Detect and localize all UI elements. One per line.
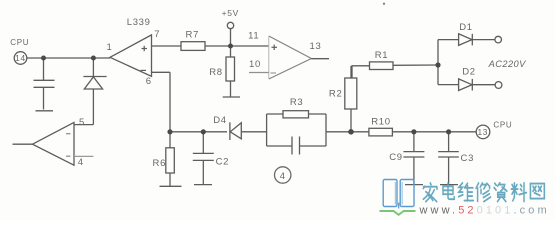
svg-text:13: 13: [477, 127, 488, 137]
svg-text:C9: C9: [389, 152, 403, 163]
svg-text:4: 4: [280, 171, 286, 182]
svg-text:1: 1: [107, 42, 113, 53]
svg-text:14: 14: [15, 53, 26, 63]
svg-text:C3: C3: [461, 153, 475, 164]
svg-text:www.520101.com: www.520101.com: [419, 205, 550, 217]
svg-text:C2: C2: [216, 156, 230, 167]
svg-text:5: 5: [79, 117, 85, 128]
svg-text:L339: L339: [127, 17, 151, 28]
svg-text:R7: R7: [186, 29, 200, 40]
svg-text:CPU: CPU: [10, 38, 29, 47]
svg-text:R8: R8: [209, 67, 223, 78]
svg-text:D2: D2: [462, 66, 476, 77]
svg-text:R3: R3: [290, 97, 304, 108]
svg-text:CPU: CPU: [493, 120, 512, 129]
svg-text:AC220V: AC220V: [488, 59, 526, 69]
svg-text:R2: R2: [329, 89, 343, 100]
svg-text:+5V: +5V: [222, 8, 239, 18]
svg-text:D4: D4: [213, 115, 227, 126]
svg-text:10: 10: [249, 59, 261, 70]
svg-text:4: 4: [78, 157, 84, 168]
svg-text:11: 11: [248, 31, 259, 42]
svg-text:7: 7: [154, 29, 160, 40]
svg-text:R1: R1: [375, 50, 389, 61]
svg-text:R10: R10: [371, 116, 391, 127]
svg-text:R6: R6: [153, 158, 167, 169]
svg-text:D1: D1: [459, 22, 473, 33]
svg-text:13: 13: [310, 41, 322, 52]
svg-text:6: 6: [146, 76, 152, 87]
